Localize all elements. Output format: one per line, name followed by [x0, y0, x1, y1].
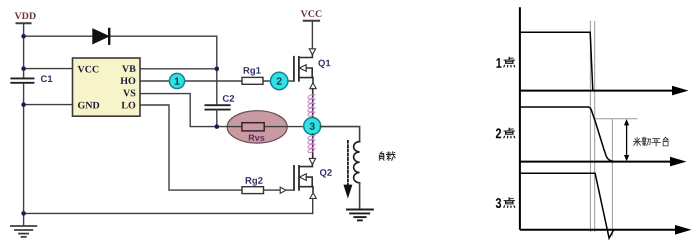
diode D1 (bootstrap) [93, 29, 109, 44]
waveform 3: node 3 switch voltage [520, 173, 614, 238]
wire: left vertical rail below C1 [23, 83, 25, 213]
waveform vertical axis [519, 7, 521, 230]
junction dots [21, 34, 26, 39]
capacitor C1 [11, 78, 33, 82]
wire: IC VB pin to bootstrap node [140, 68, 217, 70]
VCC rail bar [304, 20, 319, 22]
current direction dashed arrow [343, 141, 352, 199]
IC U1 gate-driver body [73, 58, 141, 116]
wire: VDD rail to bootstrap corner [24, 36, 217, 69]
wire: IC LO pin routed to Rg2 [140, 105, 242, 190]
parasitic inductance squiggle (upper) [307, 94, 315, 117]
IC pin label HO [120, 77, 135, 84]
node 1 circle [169, 73, 184, 88]
VDD rail bar [17, 22, 31, 24]
connection arrow into Q1 drain (open, down) [309, 49, 315, 55]
wire: coil to ground [359, 183, 361, 210]
Q1 label [318, 60, 330, 69]
C1 label [41, 75, 52, 82]
resistor Rg1 body [242, 77, 263, 84]
VDD power label [15, 12, 36, 19]
load label (Chinese: fu zai) [379, 152, 384, 161]
waveform 2: node 2 gate voltage with Miller plateau [520, 107, 613, 161]
IC pin label VS [123, 90, 135, 97]
wire: bottom ground rail [24, 212, 313, 214]
transistor Q1 (high-side NMOS) [294, 55, 313, 83]
Rg2 label [246, 177, 263, 186]
label: Miller plateau (Chinese) [633, 138, 641, 146]
connection arrow out of Q2 source (open, up) [310, 193, 316, 199]
wire: node 3 to load branch [320, 127, 359, 142]
Q2 label [320, 169, 332, 178]
gray tick at plateau top level [595, 118, 638, 120]
ground symbol (left) [11, 213, 37, 237]
waveform 1: node 1 gate drive [520, 32, 593, 90]
label 2 dian [496, 128, 501, 138]
Rvs highlight ellipse [227, 111, 287, 143]
wire: Q2 source down to bottom rail [312, 199, 314, 214]
wire: bootstrap vertical down to C2 [216, 69, 218, 105]
gray reference line at switching edge 1 [589, 21, 591, 232]
wire: left vertical rail above C1 [23, 23, 25, 78]
node 2 circle [271, 72, 288, 89]
IC pin label VCC [78, 66, 99, 73]
wire: rail to IC VCC pin [24, 68, 73, 70]
wire: Rg2 to gate arrow [264, 189, 281, 191]
node 3 circle [304, 118, 321, 135]
axis 1 [520, 90, 673, 92]
connection arrow into Q2 gate (open, right) [280, 187, 286, 193]
wire: Q1 source down to node 3 [312, 89, 314, 119]
resistor Rg2 body [242, 187, 264, 194]
label 1 dian [496, 58, 501, 68]
label 3 dian [496, 198, 501, 208]
wire: rail to IC GND pin [24, 104, 73, 106]
Rg1 label [244, 67, 261, 76]
gray reference line at switching edge 2 [594, 21, 596, 232]
IC pin label VB [122, 65, 136, 72]
connection arrow into Q2 drain (open, down) [309, 158, 315, 164]
IC pin label GND [78, 102, 99, 109]
gray reference line at plateau end [611, 119, 613, 237]
transistor Q2 (low-side NMOS) [294, 164, 313, 192]
VCC power label (top of Q1) [301, 10, 322, 17]
parasitic inductance squiggle (lower) [307, 135, 315, 154]
axis 2 [520, 161, 671, 163]
Rvs label [249, 135, 265, 141]
capacitor C2 [205, 105, 229, 109]
wire: node 3 down to Q2 drain [312, 134, 314, 158]
connection arrow out of Q1 source (open, up) [310, 83, 316, 89]
axis 3 [520, 229, 676, 231]
wire: IC VS pin routed to node 3 [140, 94, 304, 127]
ground symbol (right, under load) [347, 210, 373, 221]
Miller plateau dimension arrow [626, 121, 628, 159]
inductor coil (load) [354, 142, 360, 183]
wire: IC HO pin to Q1 gate [140, 80, 294, 82]
wire: arrow to Q2 gate [286, 189, 294, 191]
wire: VCC down to Q1 drain arrow [311, 21, 313, 49]
wire: C2 bottom to VS node [216, 110, 218, 127]
IC pin label LO [122, 102, 136, 109]
C2 label [223, 95, 234, 102]
resistor Rvs body [242, 123, 264, 131]
